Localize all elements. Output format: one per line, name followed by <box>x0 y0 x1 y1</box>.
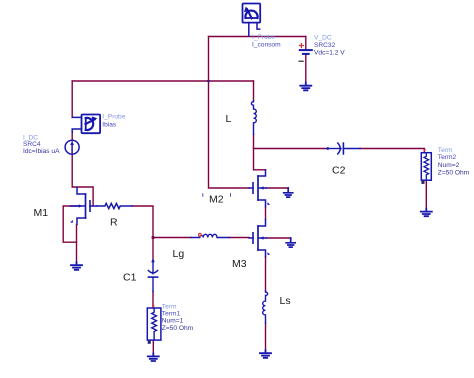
pin square Term2 <box>421 181 424 184</box>
pin arrow C2 <box>324 147 328 151</box>
wire output node to C2 <box>254 148 326 150</box>
wire L top vertical <box>253 81 255 101</box>
wire C1 to Term1 <box>152 292 154 309</box>
source arrow M1 <box>70 220 73 223</box>
transistor M3 (driver nmos) <box>249 220 266 257</box>
bulk arrow M3 <box>260 236 264 239</box>
svg-text:C2: C2 <box>332 164 346 176</box>
plus sign V_DC <box>299 44 303 48</box>
svg-text:Ibias: Ibias <box>102 121 117 128</box>
ground at M3 bulk <box>286 238 295 247</box>
wire bias rail horizontal <box>72 80 253 82</box>
pin marker Lg <box>199 233 202 236</box>
svg-text:Lg: Lg <box>173 248 185 260</box>
wire SRC4 to M1 drain-gate tie <box>72 154 93 206</box>
wire L bottom to M2 drain <box>254 134 266 170</box>
wire M2 source to M3 drain <box>265 207 267 220</box>
bulk arrow M2 <box>260 186 264 189</box>
tick right of M2 <box>230 194 232 197</box>
pin arrow C1 <box>151 258 155 262</box>
node A junction dot <box>152 236 155 239</box>
wire I_Probe to SRC4 <box>71 132 73 141</box>
wire M2 bulk to ground <box>266 187 288 189</box>
pin marker Term2 <box>423 149 426 151</box>
svg-text:M3: M3 <box>232 258 247 270</box>
wire Lg to M3 gate <box>229 237 249 239</box>
svg-text:M2: M2 <box>209 194 224 206</box>
svg-text:Vdc=1.2 V: Vdc=1.2 V <box>314 49 345 56</box>
svg-text:I_Probe: I_Probe <box>102 114 125 121</box>
wire VDD top rail <box>209 36 306 38</box>
ground under M1 <box>71 262 82 270</box>
wire M3 source to Ls <box>265 257 267 291</box>
terminal Term2 <box>421 153 431 181</box>
wire M1 source to ground <box>76 225 78 263</box>
transistor M2 (cascode nmos) <box>249 170 266 207</box>
svg-text:Num=2: Num=2 <box>438 162 460 169</box>
wire node A to Lg <box>153 237 191 239</box>
wire Term1 to ground <box>152 342 154 354</box>
source arrow M2 <box>267 202 270 205</box>
wire bias rail down to I_Probe <box>71 81 73 117</box>
wire Term2 to ground <box>425 180 427 209</box>
capacitor C2 <box>328 143 361 154</box>
minus sign V_DC <box>299 60 303 62</box>
resistor R <box>97 203 132 208</box>
svg-text:Term2: Term2 <box>438 154 457 161</box>
svg-text:L: L <box>226 113 232 125</box>
inductor Lg <box>191 234 229 237</box>
ground under Term1 <box>148 354 159 362</box>
wire Ls to ground <box>265 323 267 350</box>
ground under V_DC <box>300 83 311 91</box>
svg-text:V_DC: V_DC <box>314 35 332 42</box>
inductor Ls <box>263 291 268 323</box>
svg-text:I_consom: I_consom <box>252 41 281 48</box>
ground under Term2 <box>421 209 432 217</box>
transistor M1 (mirrored nmos) <box>71 187 97 224</box>
ground under Ls <box>260 350 271 358</box>
svg-text:R: R <box>110 217 118 229</box>
svg-text:Term1: Term1 <box>162 310 181 317</box>
ammeter probe Ibias <box>72 115 100 134</box>
svg-text:Term: Term <box>438 147 453 154</box>
source arrow M3 <box>267 252 270 255</box>
svg-text:Z=50 Ohm: Z=50 Ohm <box>162 325 194 332</box>
capacitor C1 <box>148 261 157 291</box>
inductor L <box>251 101 256 134</box>
dc current source SRC4 <box>65 140 79 154</box>
ground at M2 bulk <box>284 188 293 197</box>
svg-text:Num=1: Num=1 <box>162 318 184 325</box>
dc source V_DC SRC32 <box>300 50 312 54</box>
svg-text:SRC32: SRC32 <box>314 42 336 49</box>
wire M3 bulk to ground <box>266 237 291 239</box>
svg-text:C1: C1 <box>123 272 137 284</box>
svg-text:Z=50 Ohm: Z=50 Ohm <box>438 170 470 177</box>
pin square Term1 <box>148 341 151 344</box>
svg-text:I_Probe: I_Probe <box>252 34 275 41</box>
ammeter probe I_consom <box>243 4 261 37</box>
wire V_DC to ground <box>305 55 307 83</box>
wire node A down to C1 <box>152 238 154 260</box>
wire C2 to Term2 <box>360 149 424 153</box>
wire M1 gate through R to node A <box>132 206 153 238</box>
bulk arrow M1 <box>79 204 83 207</box>
wire V_DC branch <box>305 37 307 50</box>
svg-text:Idc=Ibias uA: Idc=Ibias uA <box>23 148 60 155</box>
node junction bias rail <box>207 80 210 83</box>
tick left of M2 <box>202 194 204 197</box>
wire M1 bulk loop <box>63 206 78 242</box>
svg-text:Ls: Ls <box>280 295 291 307</box>
terminal Term1 <box>147 308 161 340</box>
pin marker Term1 <box>152 306 155 308</box>
wire VDD to M2 gate vertical <box>209 37 250 189</box>
svg-text:M1: M1 <box>34 207 49 219</box>
